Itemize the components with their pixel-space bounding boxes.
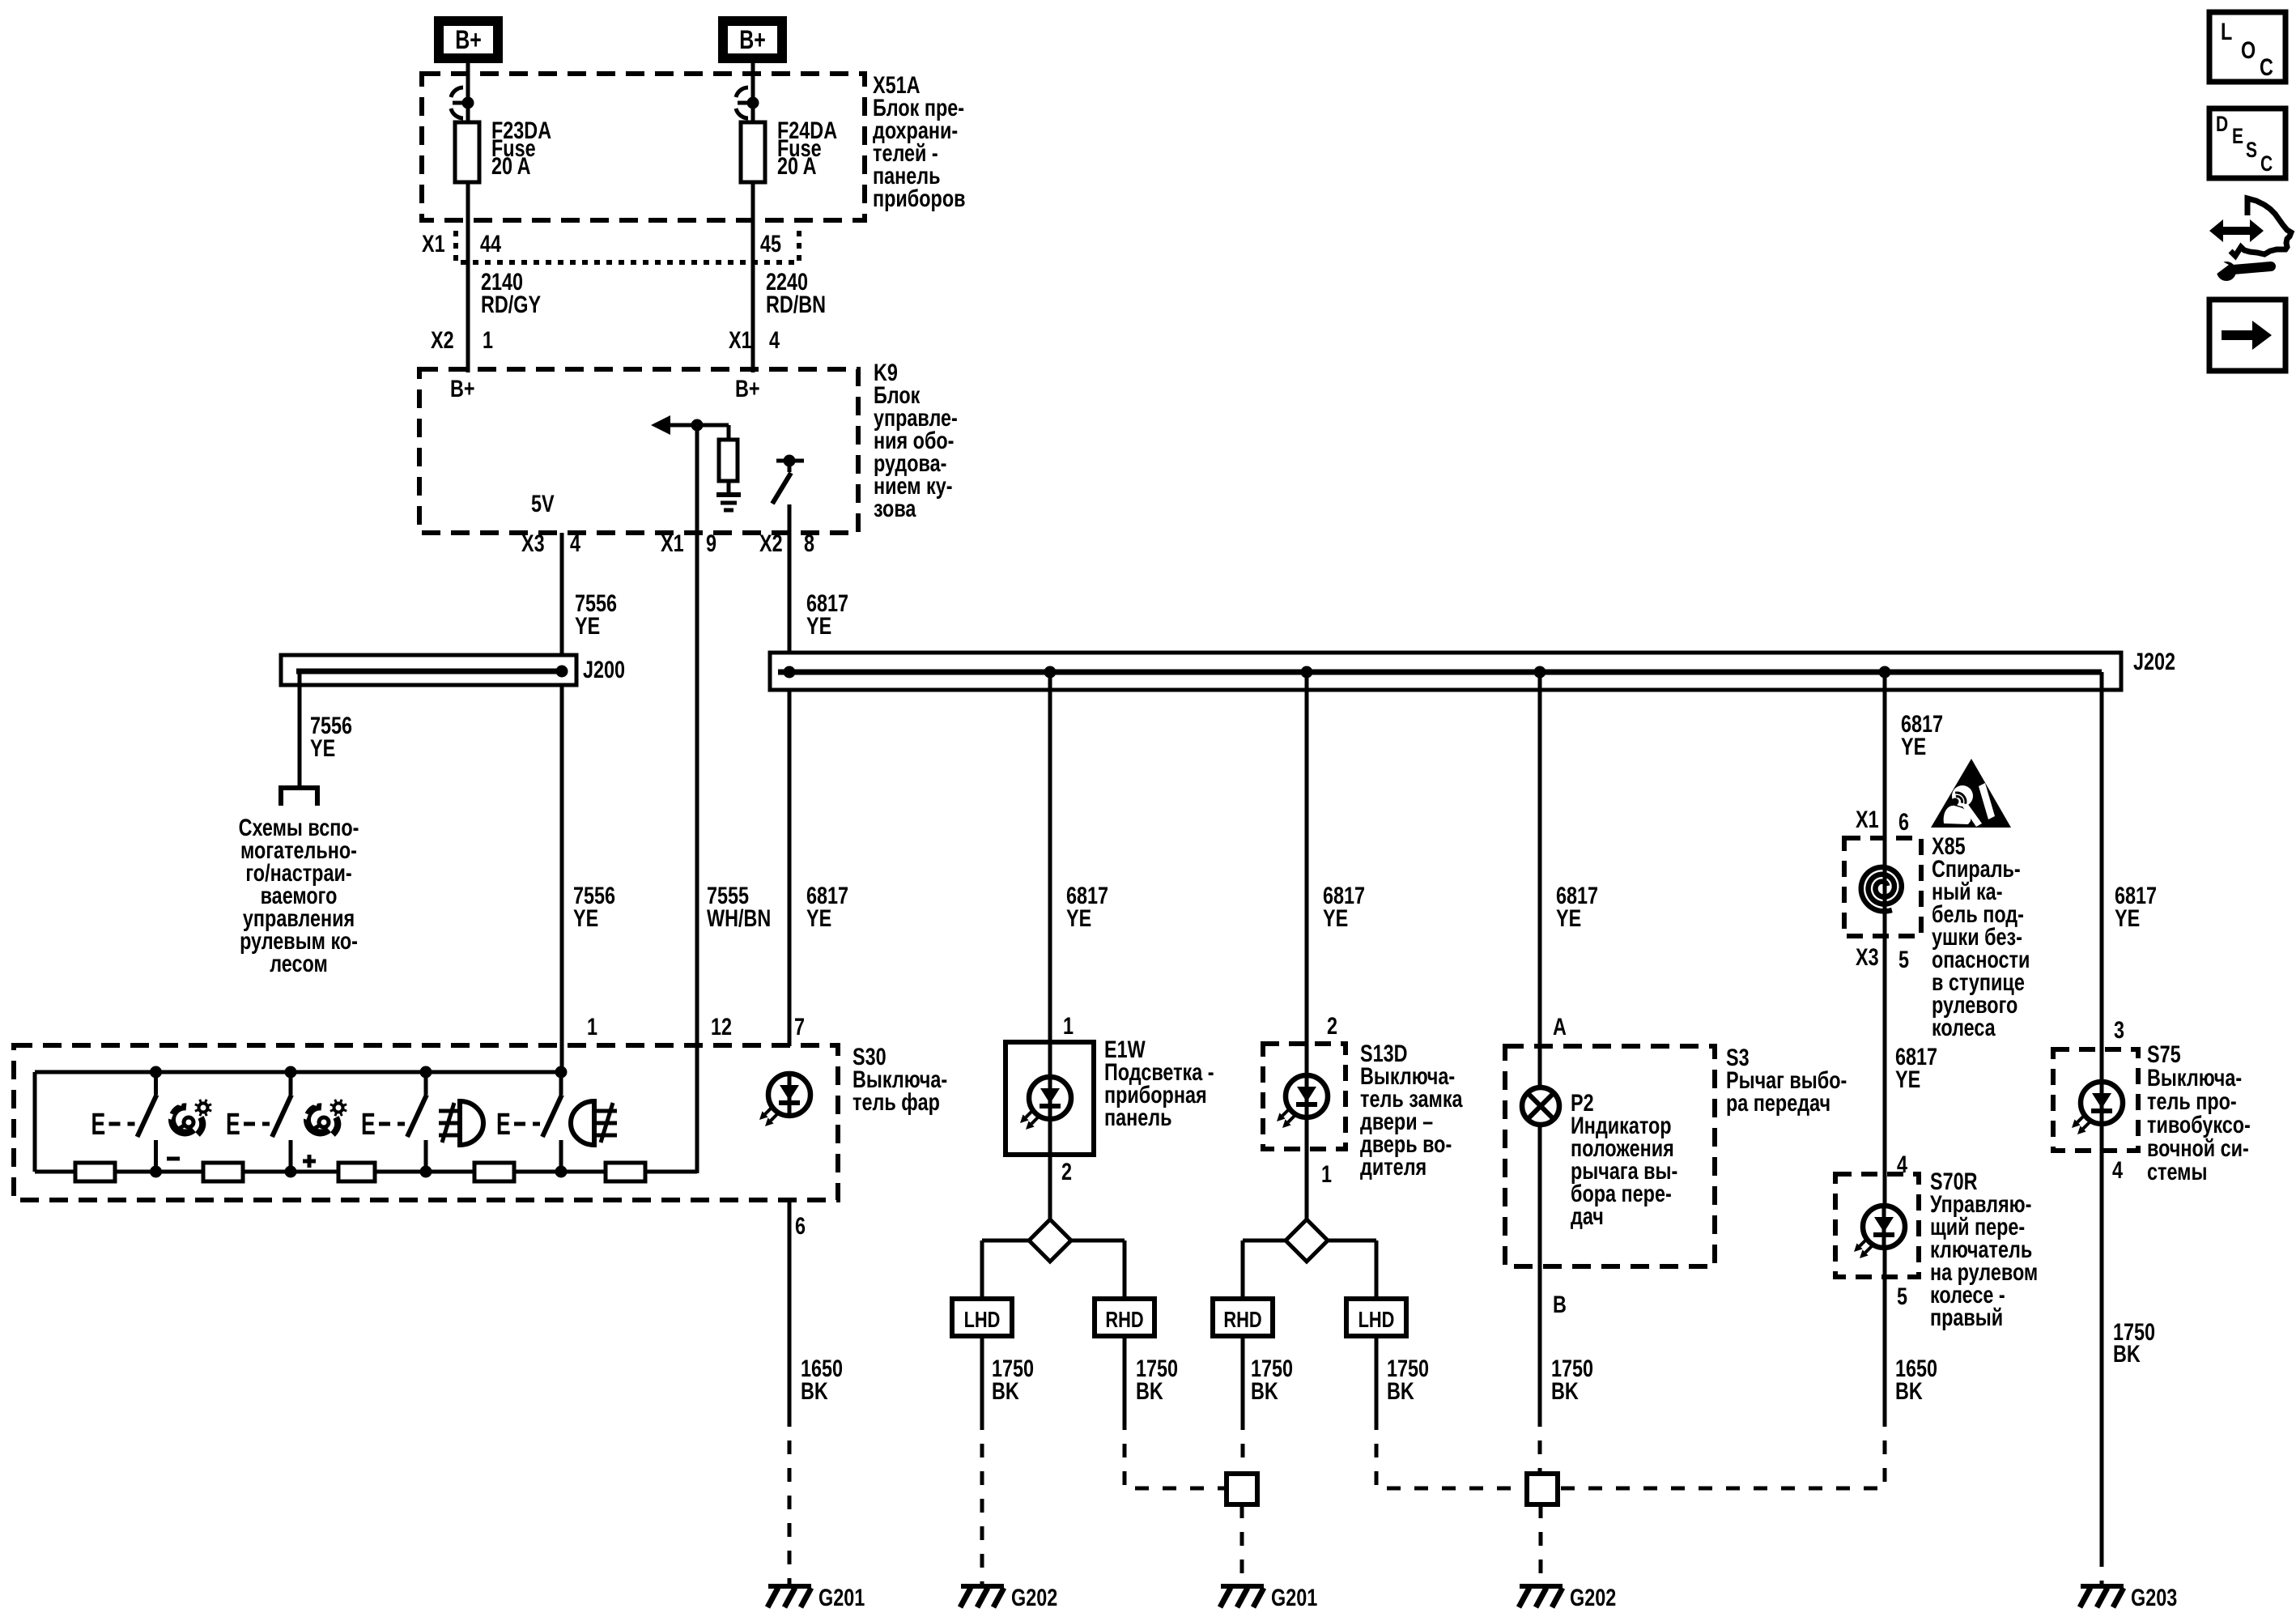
connector X1 dotted bracket: [456, 231, 799, 262]
ground in K9: [716, 495, 741, 510]
wire RHD1 to splice square: [1125, 1336, 1227, 1488]
svg-text:B+: B+: [739, 26, 766, 55]
svg-text:RD/GY: RD/GY: [481, 291, 541, 317]
wire B+ to fuse F24DA: [751, 63, 755, 122]
svg-text:S: S: [2246, 138, 2257, 163]
svg-text:X2: X2: [759, 530, 783, 556]
label F23DA: [491, 117, 551, 179]
svg-text:BK: BK: [2113, 1340, 2141, 1367]
svg-text:G202: G202: [1011, 1584, 1057, 1611]
fuse F24DA: [741, 103, 765, 182]
wire square 1 to ground: [1240, 1504, 1244, 1586]
wire square 2 to ground: [1539, 1504, 1543, 1586]
S30 internal bus top: [35, 1070, 561, 1074]
svg-text:BK: BK: [1251, 1377, 1278, 1404]
wire label 1650 BK: [801, 1355, 843, 1404]
connector terminal at F24DA: [736, 87, 759, 118]
wire label 1750 BK RHD1: [1136, 1355, 1178, 1404]
RHD box 2: [1213, 1299, 1273, 1336]
svg-text:RD/BN: RD/BN: [766, 291, 826, 317]
label P2: [1571, 1089, 1677, 1229]
driver output arrow in K9: [651, 415, 729, 440]
label pins 1 12 7: [587, 1013, 805, 1040]
label pins X1 6: [1856, 806, 1909, 835]
wire label 6817 YE at S30: [806, 882, 848, 931]
svg-text:9: 9: [706, 530, 716, 556]
resistor in K9: [719, 440, 738, 495]
svg-text:1: 1: [587, 1013, 597, 1040]
svg-text:6: 6: [795, 1212, 806, 1239]
wire 6817 YE to S13D: [1305, 672, 1309, 1044]
svg-text:BK: BK: [1895, 1377, 1923, 1404]
wire fuse F23DA to K9 pin X2-1: [466, 182, 470, 372]
svg-text:YE: YE: [806, 904, 831, 931]
svg-text:44: 44: [480, 230, 501, 257]
svg-text:X3: X3: [521, 530, 545, 556]
B+ terminal 1: [439, 21, 498, 58]
svg-text:20 A: 20 A: [491, 152, 531, 179]
branch to LHD right: [1328, 1240, 1376, 1299]
fuse F23DA: [455, 103, 479, 182]
wire label 7556 YE upper: [575, 589, 617, 639]
svg-text:лесом: лесом: [270, 950, 328, 977]
splice square 1: [1227, 1474, 1257, 1504]
svg-text:8: 8: [804, 530, 814, 556]
svg-text:4: 4: [2112, 1156, 2123, 1183]
svg-text:приборов: приборов: [873, 185, 965, 211]
wire label 1750 BK RHD2: [1251, 1355, 1293, 1404]
S30 dimmer gauge icon 1: [167, 1100, 211, 1134]
label S70R: [1930, 1168, 2038, 1330]
S30 resistor 5: [606, 1163, 645, 1181]
svg-text:1: 1: [483, 326, 493, 353]
wire label 1750 BK P2: [1551, 1355, 1593, 1404]
label S3: [1726, 1044, 1847, 1116]
svg-text:L: L: [2221, 18, 2232, 45]
svg-text:BK: BK: [1551, 1377, 1579, 1404]
S30 switch section 2: [226, 1066, 297, 1178]
branch to RHD left: [1243, 1240, 1286, 1299]
svg-text:YE: YE: [1323, 904, 1348, 931]
switch in K9: [772, 455, 804, 504]
svg-text:G202: G202: [1570, 1584, 1616, 1611]
spiral cable X85: [1844, 838, 1921, 936]
LHD box 1: [952, 1299, 1012, 1336]
ground G203: [2080, 1584, 2177, 1611]
svg-text:B+: B+: [455, 26, 482, 55]
svg-text:4: 4: [769, 326, 780, 353]
fuse box X51A: [422, 74, 865, 220]
ground G202 for square 2: [1519, 1584, 1616, 1611]
svg-text:дителя: дителя: [1360, 1153, 1426, 1180]
wire fuse F24DA to K9 pin X1-4: [751, 182, 755, 372]
S30 front fog lamp icon: [439, 1101, 483, 1145]
LHD box 2: [1346, 1299, 1406, 1336]
svg-text:X1: X1: [1856, 806, 1879, 832]
svg-text:E: E: [361, 1106, 376, 1141]
branch to RHD right: [1071, 1240, 1125, 1299]
wire label 1750 BK S75: [2113, 1318, 2155, 1367]
svg-text:5: 5: [1898, 946, 1909, 972]
svg-text:YE: YE: [806, 612, 831, 639]
svg-text:7: 7: [794, 1013, 805, 1040]
svg-text:6: 6: [1898, 808, 1909, 835]
wire label 6817 YE at P2: [1556, 882, 1598, 931]
svg-text:G201: G201: [1271, 1584, 1317, 1611]
LOC box: [2209, 12, 2285, 82]
svg-text:YE: YE: [310, 734, 335, 761]
svg-text:E: E: [496, 1106, 511, 1141]
wire 7555 WH/BN from K9 X1-9 to S30 pin 12: [695, 425, 699, 1173]
connector terminal at F23DA: [451, 87, 474, 118]
off-page connector: [281, 788, 317, 806]
svg-text:YE: YE: [1066, 904, 1091, 931]
svg-text:O: O: [2241, 36, 2256, 63]
wire label 6817 YE at X85: [1901, 710, 1943, 760]
ground G201 for square 1: [1220, 1584, 1317, 1611]
svg-text:YE: YE: [2115, 904, 2140, 931]
svg-text:RHD: RHD: [1223, 1307, 1261, 1332]
RHD box 1: [1095, 1299, 1154, 1336]
svg-text:X3: X3: [1856, 943, 1879, 970]
svg-text:C: C: [2260, 53, 2273, 80]
svg-text:стемы: стемы: [2147, 1158, 2207, 1185]
panel illumination E1W: [1006, 1042, 1094, 1219]
wire label 6817 YE at S13D: [1323, 882, 1365, 931]
wire label 6817 YE below X85: [1895, 1043, 1937, 1092]
svg-text:зова: зова: [874, 495, 916, 521]
note steering wheel controls circuits: [239, 814, 359, 977]
svg-text:2: 2: [1327, 1012, 1337, 1039]
branch to LHD left: [982, 1240, 1029, 1299]
service tool icon: [2209, 198, 2291, 281]
body control module K9: [419, 369, 858, 533]
svg-text:RHD: RHD: [1105, 1307, 1143, 1332]
svg-text:G201: G201: [818, 1584, 865, 1611]
airbag warning triangle: [1931, 759, 2011, 828]
svg-text:LHD: LHD: [964, 1307, 1001, 1332]
label S30: [852, 1043, 947, 1115]
wire LHD1 to ground: [980, 1336, 984, 1586]
label S13D: [1360, 1040, 1463, 1180]
indicator lamp P2: [1522, 1087, 1559, 1125]
wire 6817 YE to E1W: [1048, 672, 1052, 1044]
splice pack J200: [281, 655, 576, 685]
wire 6817 YE to S75: [2100, 672, 2104, 1553]
wire 1650 BK from S30: [788, 1200, 792, 1586]
splice diamond S13D: [1286, 1219, 1328, 1262]
label X51A: [873, 71, 965, 211]
svg-text:4: 4: [570, 530, 580, 556]
svg-text:X2: X2: [431, 326, 454, 353]
S30 resistor 1: [75, 1163, 115, 1181]
S30 internal bus bottom: [35, 1170, 697, 1174]
svg-text:1: 1: [1063, 1012, 1074, 1039]
steering wheel switch S70R: [1835, 1174, 1919, 1277]
svg-text:YE: YE: [575, 612, 600, 639]
svg-text:A: A: [1553, 1013, 1567, 1040]
wire 7556 YE branch from J200: [298, 671, 302, 788]
S30 resistor 3: [338, 1163, 375, 1181]
S30 minus sign: [167, 1157, 180, 1161]
svg-text:2: 2: [1061, 1158, 1072, 1185]
svg-text:BK: BK: [992, 1377, 1019, 1404]
headlamp switch S30: [14, 1045, 838, 1200]
S30 resistor 2: [203, 1163, 243, 1181]
svg-text:C: C: [2260, 152, 2273, 177]
wire label 6817 YE at E1W: [1066, 882, 1108, 931]
splice diamond E1W: [1029, 1219, 1071, 1262]
label X85: [1932, 832, 2030, 1040]
svg-text:5: 5: [1897, 1283, 1907, 1309]
svg-text:3: 3: [2114, 1016, 2124, 1043]
label E1W: [1104, 1036, 1214, 1130]
wire RHD2 to splice square: [1241, 1336, 1245, 1474]
wire 7556 YE from K9 X3-4: [560, 533, 564, 1072]
S30 resistor 4: [474, 1163, 514, 1181]
svg-text:LHD: LHD: [1358, 1307, 1395, 1332]
svg-text:панель: панель: [1104, 1104, 1172, 1130]
svg-text:X1: X1: [661, 530, 684, 556]
svg-text:BK: BK: [801, 1377, 828, 1404]
ground G201 for S30: [767, 1584, 865, 1611]
next page arrow box: [2209, 300, 2285, 371]
S30 switch section 4: [496, 1066, 568, 1178]
wire 6817 YE to P2: [1538, 672, 1542, 1413]
svg-text:B+: B+: [450, 375, 475, 402]
S30 internal bus left leg: [33, 1072, 37, 1172]
traction control switch S75: [2053, 1049, 2138, 1151]
svg-text:колеса: колеса: [1932, 1014, 1996, 1040]
svg-text:B: B: [1553, 1291, 1567, 1317]
S30 switch section 1: [91, 1066, 163, 1178]
wire label 1650 BK S70R: [1895, 1355, 1937, 1404]
svg-text:5V: 5V: [531, 490, 555, 517]
wire label 7556 YE lower: [573, 882, 615, 931]
splice pack J202: [770, 653, 2121, 690]
svg-text:YE: YE: [1556, 904, 1581, 931]
svg-text:E: E: [91, 1106, 106, 1141]
S30 plus sign: [303, 1155, 316, 1168]
selector lever S3: [1505, 1046, 1715, 1266]
svg-text:YE: YE: [1901, 733, 1926, 760]
wire LHD2 to splice square 2: [1376, 1336, 1527, 1488]
svg-text:BK: BK: [1136, 1377, 1163, 1404]
svg-text:YE: YE: [1895, 1066, 1920, 1092]
svg-text:X1: X1: [729, 326, 752, 353]
label pins X3 4 X1 9 X2 8: [521, 530, 814, 556]
svg-text:J200: J200: [583, 656, 625, 683]
label F24DA: [777, 117, 837, 179]
wire label 2140 RD/GY: [481, 268, 541, 317]
wire label 2240 RD/BN: [766, 268, 826, 317]
wire B+ to fuse F23DA: [466, 63, 470, 122]
svg-text:G203: G203: [2131, 1584, 2177, 1611]
svg-text:WH/BN: WH/BN: [707, 904, 771, 931]
S30 illumination LED: [759, 1074, 810, 1126]
B+ terminal 2: [723, 21, 782, 58]
svg-text:E: E: [226, 1106, 240, 1141]
wire P2 to splice square 2: [1538, 1413, 1542, 1474]
wire label 1750 BK LHD2: [1387, 1355, 1429, 1404]
wire label 6817 YE upper: [806, 589, 848, 639]
svg-text:1: 1: [1321, 1160, 1332, 1187]
svg-text:BK: BK: [1387, 1377, 1414, 1404]
svg-text:45: 45: [760, 230, 781, 257]
label pins X3 5: [1856, 943, 1909, 972]
S30 rear fog lamp icon: [571, 1101, 617, 1145]
label pin X1 4: [729, 326, 780, 353]
wire label 6817 YE at S75: [2115, 882, 2157, 931]
wire label 1750 BK LHD1: [992, 1355, 1034, 1404]
label K9: [874, 359, 958, 521]
svg-text:20 A: 20 A: [777, 152, 817, 179]
svg-text:дач: дач: [1571, 1202, 1604, 1229]
S30 dimmer gauge icon 2: [302, 1100, 347, 1134]
svg-text:YE: YE: [573, 904, 598, 931]
svg-text:J202: J202: [2133, 648, 2175, 674]
svg-text:тель фар: тель фар: [852, 1088, 940, 1115]
svg-text:B+: B+: [735, 375, 760, 402]
svg-text:E: E: [2232, 125, 2243, 149]
svg-text:12: 12: [711, 1013, 732, 1040]
svg-text:ра передач: ра передач: [1726, 1089, 1830, 1116]
wire S70R to splice square 2: [1558, 1413, 1885, 1488]
ground G202 for LHD1: [960, 1584, 1057, 1611]
label S75: [2147, 1040, 2251, 1185]
wire 6817 YE from K9 X2-8: [788, 504, 792, 1046]
svg-text:D: D: [2216, 113, 2228, 137]
wire S75 to ground: [2100, 1553, 2104, 1586]
label pin X1 44 45: [422, 230, 781, 257]
door lock switch S13D: [1263, 1044, 1346, 1219]
label pin X2 1: [431, 326, 493, 353]
S30 switch section 3: [361, 1066, 432, 1178]
wire 6817 YE to X85 and S70R: [1883, 672, 1887, 1413]
splice square 2: [1527, 1474, 1558, 1504]
wire label 7556 YE branch: [310, 712, 352, 761]
svg-text:правый: правый: [1930, 1304, 2003, 1330]
wire label 7555 WH/BN: [707, 882, 771, 931]
svg-text:X1: X1: [422, 230, 445, 257]
DESC box: [2209, 109, 2285, 178]
